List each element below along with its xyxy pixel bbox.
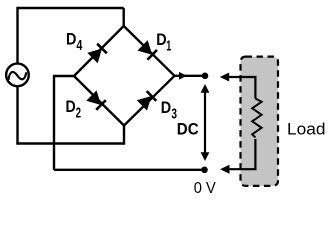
svg-text:Load: Load [287, 120, 326, 139]
DC arrow down head [201, 152, 210, 161]
svg-text:4: 4 [76, 37, 82, 54]
diode D4 [87, 43, 107, 63]
load bottom arrowhead [220, 165, 229, 174]
svg-text:2: 2 [76, 105, 81, 122]
AC source U1 [6, 64, 29, 87]
wire: top vertex stub [122, 8, 124, 27]
wire: side top-right (D1 branch) [124, 26, 175, 76]
wire: top horizontal from AC source to top vertex [18, 7, 124, 9]
arrowhead on DC+ wire [179, 72, 187, 80]
svg-text:D: D [66, 97, 76, 116]
svg-text:D: D [161, 98, 171, 117]
load top wire [229, 77, 256, 99]
svg-text:D: D [156, 30, 166, 49]
wire: right vertex to DC+ node [175, 75, 206, 77]
node DC+ [202, 73, 209, 80]
wire: 0V rail to bottom node [54, 169, 205, 171]
load top arrowhead [220, 73, 229, 82]
wire: bottom vertex stub [123, 126, 125, 145]
wire: left drop to 0V rail [53, 75, 55, 170]
diode D2 [86, 90, 106, 110]
wire: lower rail from AC source to bottom vertex [16, 142, 124, 144]
diode D3 [137, 91, 157, 111]
svg-text:0 V: 0 V [194, 180, 217, 197]
wire: side left-top (D4 branch) [74, 26, 124, 76]
load bottom wire [229, 139, 256, 169]
wire: left vertex stub [54, 75, 74, 77]
wire: AC source top lead [16, 7, 18, 63]
svg-text:DC: DC [177, 119, 199, 138]
wire: side bottom-right (D3 branch) [124, 76, 175, 126]
DC measurement arrow shaft [204, 91, 206, 154]
diode D1 [137, 40, 157, 60]
wire: side left-bottom (D2 branch) [74, 76, 124, 126]
svg-text:D: D [66, 30, 76, 49]
node 0V [201, 167, 208, 174]
wire: AC source bottom lead down to lower rail [16, 87, 18, 144]
resistor (load) [252, 99, 261, 138]
load box (dashed, gray fill) [241, 57, 279, 186]
svg-text:1: 1 [166, 37, 171, 54]
AC sine symbol [8, 72, 26, 80]
DC arrow up head [201, 84, 210, 93]
